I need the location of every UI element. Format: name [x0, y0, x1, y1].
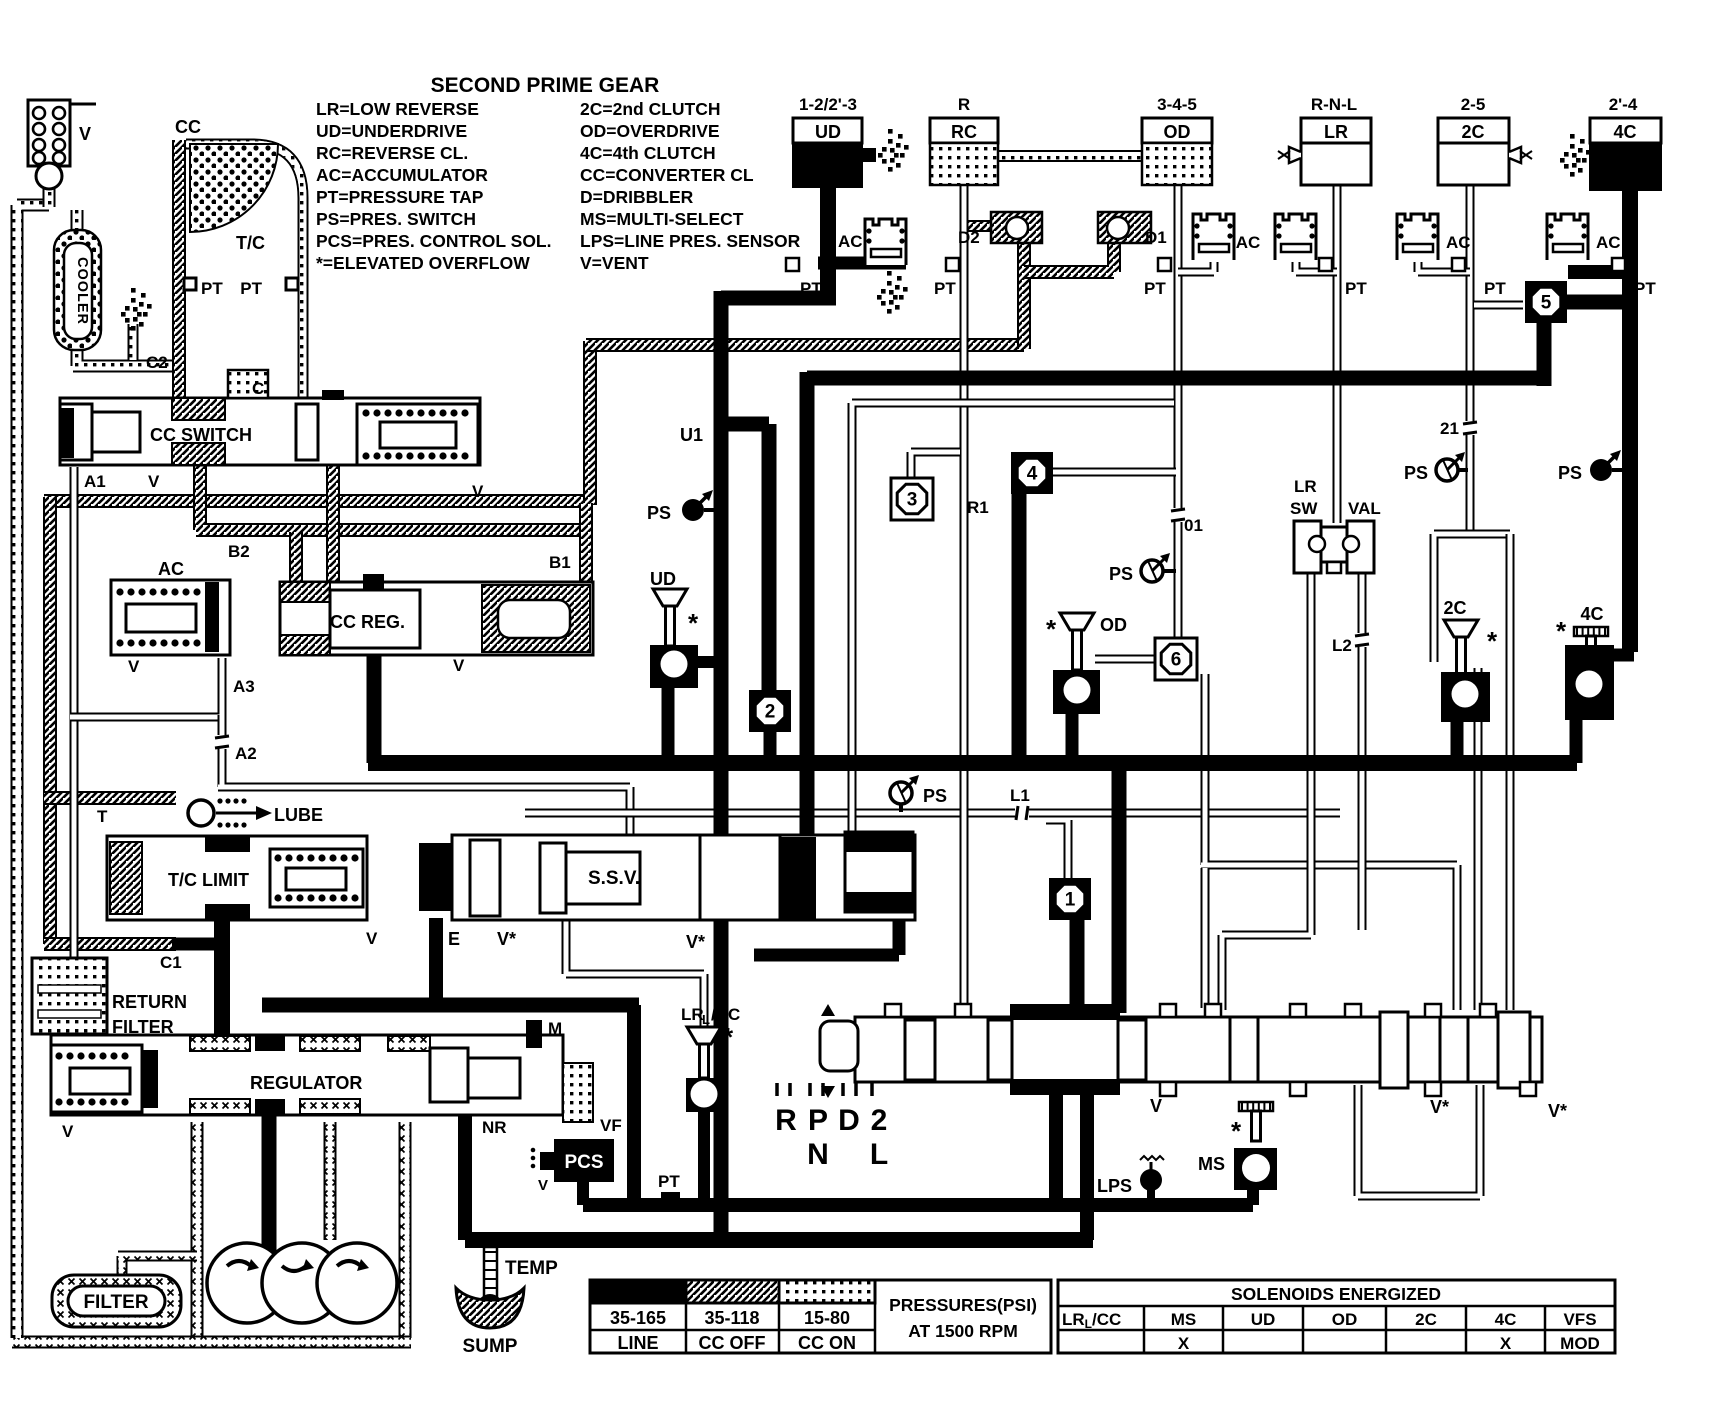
wire: L2 line	[1358, 571, 1367, 930]
svg-text:SW: SW	[1290, 499, 1318, 518]
svg-text:MS: MS	[1198, 1154, 1225, 1174]
svg-text:OD: OD	[1164, 122, 1191, 142]
svg-text:REGULATOR: REGULATOR	[250, 1073, 362, 1093]
svg-text:2C: 2C	[1461, 122, 1484, 142]
wire: LPS stem	[1147, 1190, 1155, 1205]
wire: LRL/CC leg	[698, 1106, 710, 1205]
svg-text:R: R	[775, 1104, 797, 1137]
wire: S.S.V. bottom U	[754, 908, 899, 955]
wire: from circle 6 down and right to manual valve	[1201, 674, 1457, 1010]
wire: circle2 drop	[764, 729, 777, 763]
wire: E drop from S.S.V.	[429, 918, 443, 1005]
svg-text:PT: PT	[1144, 279, 1166, 298]
svg-text:PS: PS	[1404, 463, 1428, 483]
svg-text:*=ELEVATED OVERFLOW: *=ELEVATED OVERFLOW	[316, 253, 530, 273]
svg-text:CC: CC	[175, 117, 201, 137]
svg-text:3: 3	[907, 490, 918, 511]
node 5	[1525, 281, 1567, 323]
lube orifice	[188, 800, 214, 826]
svg-text:LRL/CC: LRL/CC	[1062, 1310, 1121, 1331]
svg-text:T/C LIMIT: T/C LIMIT	[168, 870, 249, 890]
pressures legend table	[590, 1280, 1051, 1353]
wire: LR SW VAL left outlet	[1222, 571, 1311, 1010]
svg-text:S.S.V.: S.S.V.	[588, 868, 640, 889]
svg-text:2C=2nd CLUTCH: 2C=2nd CLUTCH	[580, 99, 721, 119]
wire: 2C overflow drop	[1451, 722, 1464, 763]
wire: AC4 connector	[1418, 262, 1470, 272]
valve manual (R P D 2 N L)	[855, 1017, 1542, 1082]
svg-text:PT: PT	[240, 279, 262, 298]
svg-text:D2: D2	[958, 228, 980, 247]
svg-text:2C: 2C	[1443, 598, 1466, 618]
wire: pump feed	[262, 1112, 277, 1252]
wire: 4C main drop	[1622, 186, 1638, 652]
svg-text:X: X	[1500, 1334, 1512, 1353]
wire: hatched riser up to D1/D2 row	[583, 341, 597, 505]
filter	[52, 1275, 181, 1327]
svg-text:PS: PS	[1109, 564, 1133, 584]
svg-text:35-118: 35-118	[704, 1308, 759, 1328]
svg-text:MS: MS	[1171, 1310, 1197, 1329]
wire: sump bottom line	[12, 1336, 411, 1349]
svg-text:L1: L1	[1010, 786, 1030, 805]
svg-text:T/C: T/C	[236, 233, 265, 253]
svg-text:35-165: 35-165	[610, 1308, 666, 1328]
wire: PCS leg	[577, 1178, 589, 1205]
wire: pipe under hatch row	[852, 403, 1174, 838]
break 01	[1172, 508, 1184, 522]
wire: 4C overflow link	[1605, 649, 1634, 662]
break A2	[216, 735, 228, 749]
svg-text:UD=UNDERDRIVE: UD=UNDERDRIVE	[316, 121, 467, 141]
svg-text:LPS: LPS	[1097, 1176, 1132, 1196]
svg-text:2: 2	[871, 1104, 888, 1137]
wire: circle 5 to 4C line	[1560, 295, 1636, 310]
wire: hatched leg D2 down	[1017, 243, 1031, 349]
valve S.S.V.	[452, 835, 915, 920]
svg-text:PS=PRES. SWITCH: PS=PRES. SWITCH	[316, 209, 476, 229]
wire: main UD riser down entire sheet	[714, 291, 729, 1240]
wire: hatched stub RC to D2	[966, 220, 991, 232]
accumulator AC (UD)	[865, 219, 906, 265]
wire: bottom return line	[465, 1232, 1093, 1248]
wire: cooler outlet / C2 dotted line	[73, 348, 178, 366]
svg-text:01: 01	[1184, 516, 1203, 535]
svg-text:PT: PT	[658, 1172, 680, 1191]
svg-text:U1: U1	[680, 425, 703, 445]
svg-text:V*: V*	[1548, 1101, 1567, 1121]
svg-text:AC=ACCUMULATOR: AC=ACCUMULATOR	[316, 165, 488, 185]
sump cup	[456, 1288, 524, 1328]
wire: LPS/MS bus	[583, 1198, 1253, 1212]
return filter	[32, 958, 107, 1034]
svg-text:PT: PT	[934, 279, 956, 298]
wire: suction left	[191, 1122, 204, 1338]
wire: U1 stub and branch to circle 2	[714, 424, 769, 695]
wire: 2C line to circle 5	[1474, 301, 1523, 310]
svg-text:2'-4: 2'-4	[1609, 95, 1638, 114]
vent symbol V top-left	[28, 100, 70, 166]
svg-text:D: D	[838, 1104, 860, 1137]
wire: riser from S.S.V. to top bus	[800, 372, 815, 840]
wire: MS leg	[1247, 1183, 1259, 1205]
svg-text:N: N	[807, 1138, 829, 1171]
wire: AC1 thick bar	[818, 257, 906, 270]
svg-text:RETURN: RETURN	[112, 992, 187, 1012]
svg-text:3-4-5: 3-4-5	[1157, 95, 1197, 114]
wire: middle main bus y763	[368, 755, 1577, 771]
PT taps on T/C	[184, 278, 196, 290]
wire: OD overflow drop	[1066, 712, 1079, 763]
svg-text:2C: 2C	[1415, 1310, 1437, 1329]
break 21	[1464, 421, 1476, 435]
svg-text:UD: UD	[650, 569, 676, 589]
svg-text:CC=CONVERTER CL: CC=CONVERTER CL	[580, 165, 754, 185]
wire: AC3 connector	[1296, 262, 1337, 272]
svg-text:FILTER: FILTER	[83, 1292, 148, 1313]
node 3	[891, 478, 933, 520]
svg-text:C2: C2	[146, 353, 168, 372]
svg-text:RC=REVERSE CL.: RC=REVERSE CL.	[316, 143, 468, 163]
svg-text:LR: LR	[1324, 122, 1348, 142]
svg-text:L: L	[702, 1012, 710, 1027]
wire: C1 drop from T/C LIMIT	[214, 918, 230, 1040]
svg-text:R-N-L: R-N-L	[1311, 95, 1357, 114]
wire: filter link	[118, 1256, 197, 1274]
wire: suction mid	[324, 1122, 337, 1240]
svg-text:X: X	[1178, 1334, 1190, 1353]
break L2	[1356, 633, 1368, 647]
svg-text:AC: AC	[1596, 233, 1621, 252]
svg-text:OD: OD	[1100, 615, 1127, 635]
svg-text:V: V	[453, 656, 465, 675]
svg-text:LPS=LINE PRES. SENSOR: LPS=LINE PRES. SENSOR	[580, 231, 801, 251]
PT tap	[1612, 258, 1625, 271]
svg-text:PCS=PRES. CONTROL SOL.: PCS=PRES. CONTROL SOL.	[316, 231, 551, 251]
wire: 2C loop	[1434, 534, 1510, 662]
wire: riser top bus to circle 5	[1537, 316, 1552, 386]
node 2	[749, 690, 791, 732]
svg-text:OD=OVERDRIVE: OD=OVERDRIVE	[580, 121, 720, 141]
wire: NR drop	[458, 1112, 472, 1240]
svg-text:*: *	[1487, 626, 1498, 656]
svg-text:5: 5	[1541, 293, 1552, 314]
T/C dome (converter clutch area)	[190, 144, 278, 232]
wire: top bus y378	[807, 371, 1548, 386]
wire: hatched T frame top	[44, 791, 176, 805]
svg-text:PT: PT	[1484, 279, 1506, 298]
svg-text:LR: LR	[1294, 477, 1317, 496]
node 6	[1155, 638, 1197, 680]
wire: hatched line CC SWITCH row to right riser	[44, 494, 590, 508]
PT tap	[1319, 258, 1332, 271]
svg-text:B1: B1	[549, 553, 571, 572]
svg-text:R: R	[958, 95, 970, 114]
svg-text:SUMP: SUMP	[463, 1336, 518, 1357]
wire: manual valve drop right	[1080, 1085, 1094, 1240]
svg-text:LUBE: LUBE	[274, 805, 323, 825]
accumulator AC left	[111, 580, 230, 655]
svg-text:P: P	[808, 1104, 828, 1137]
svg-text:2-5: 2-5	[1461, 95, 1486, 114]
svg-text:PT: PT	[800, 279, 822, 298]
svg-text:4C: 4C	[1580, 604, 1603, 624]
svg-text:R1: R1	[967, 498, 989, 517]
wire: hatched line to dribblers D2/D1	[586, 338, 1024, 352]
svg-text:*: *	[1556, 616, 1567, 646]
svg-text:CC SWITCH: CC SWITCH	[150, 425, 252, 445]
svg-text:PRESSURES(PSI): PRESSURES(PSI)	[889, 1295, 1037, 1315]
wire: RC line down	[960, 183, 969, 1010]
svg-text:SECOND PRIME GEAR: SECOND PRIME GEAR	[431, 74, 660, 97]
wire: circle4 drop	[1012, 491, 1027, 763]
accumulator AC (4C)	[1547, 214, 1588, 260]
svg-text:LR=LOW REVERSE: LR=LOW REVERSE	[316, 99, 479, 119]
svg-text:B2: B2	[228, 542, 250, 561]
wire: left border dotted return line	[17, 205, 49, 1310]
wire: A2 pipe to S.S.V.	[218, 715, 630, 838]
svg-text:V: V	[148, 472, 160, 491]
gear ticks	[775, 1083, 779, 1096]
wire: OD line down	[1174, 183, 1183, 647]
valve T/C LIMIT	[107, 836, 367, 920]
svg-text:C1: C1	[160, 953, 182, 972]
wire: hatched left vertical (T frame)	[43, 497, 57, 944]
wire: UD overflow link	[695, 656, 723, 668]
break L1	[1015, 807, 1029, 819]
svg-text:*: *	[688, 608, 699, 638]
svg-text:VAL: VAL	[1348, 499, 1381, 518]
svg-text:V*: V*	[1430, 1097, 1449, 1117]
VF dotted block	[563, 1063, 593, 1122]
svg-text:D=DRIBBLER: D=DRIBBLER	[580, 187, 694, 207]
PT tap	[1158, 258, 1171, 271]
svg-text:15-80: 15-80	[804, 1308, 850, 1328]
M tab	[526, 1020, 542, 1048]
svg-text:LR: LR	[681, 1005, 704, 1024]
svg-text:UD: UD	[1251, 1310, 1276, 1329]
svg-text:4C: 4C	[1495, 1310, 1517, 1329]
svg-text:V*: V*	[497, 929, 516, 949]
wire: riser regulator to LPS bus	[627, 1005, 641, 1205]
wire: 2C loop right long drop	[1506, 534, 1515, 1010]
wire: hatched U between D2 and D1	[1024, 243, 1114, 272]
svg-text:A1: A1	[84, 472, 106, 491]
PT tap	[946, 258, 959, 271]
wire: 2C line down	[1466, 183, 1475, 534]
svg-text:LINE: LINE	[617, 1333, 658, 1353]
svg-text:6: 6	[1171, 650, 1182, 671]
wire: LR line down	[1333, 183, 1342, 523]
svg-text:4C=4th CLUTCH: 4C=4th CLUTCH	[580, 143, 716, 163]
cooler	[54, 230, 101, 350]
svg-text:NR: NR	[482, 1118, 507, 1137]
wire: UD overflow drop	[662, 684, 675, 763]
svg-text:T: T	[97, 807, 108, 826]
svg-text:PS: PS	[1558, 463, 1582, 483]
svg-text:C: C	[252, 379, 264, 398]
PCS solenoid	[554, 1139, 614, 1182]
svg-text:V: V	[79, 124, 91, 144]
pressure switch PS (2C)	[1436, 459, 1458, 481]
svg-text:1-2/2'-3: 1-2/2'-3	[799, 95, 857, 114]
svg-text:A3: A3	[233, 677, 255, 696]
CC SWITCH spring chamber	[357, 404, 478, 465]
svg-text:TEMP: TEMP	[505, 1258, 558, 1279]
pressure switch PS (4C)	[1590, 459, 1612, 481]
svg-text:V: V	[1150, 1096, 1162, 1116]
valve LR SW VAL	[1294, 521, 1321, 573]
svg-text:PT: PT	[1345, 279, 1367, 298]
wire: manual valve drop left	[1049, 1085, 1063, 1205]
wire: hatched T frame bottom	[44, 937, 176, 951]
svg-text:V: V	[366, 929, 378, 948]
wire: circle 3 link	[911, 452, 960, 480]
pressure switch PS (L1)	[890, 782, 912, 804]
svg-text:*: *	[1231, 1116, 1242, 1146]
svg-text:V: V	[62, 1122, 74, 1141]
svg-text:AT 1500 RPM: AT 1500 RPM	[908, 1321, 1018, 1341]
valve CC SWITCH	[60, 398, 480, 465]
svg-text:CC ON: CC ON	[798, 1333, 856, 1353]
wire: CC REG drop to bus	[367, 652, 382, 763]
svg-text:M: M	[548, 1019, 562, 1038]
wire: dotted left joins bottom	[11, 1305, 24, 1338]
node 1	[1049, 878, 1091, 920]
wire: S.S.V. port to LRL/CC	[566, 918, 704, 1032]
svg-text:PS: PS	[923, 786, 947, 806]
pump rotors	[207, 1243, 287, 1323]
svg-text:V=VENT: V=VENT	[580, 253, 649, 273]
svg-text:V*: V*	[686, 932, 705, 952]
svg-text:E: E	[448, 929, 460, 949]
wire: L1 long pipe	[525, 809, 1340, 818]
svg-text:MS=MULTI-SELECT: MS=MULTI-SELECT	[580, 209, 744, 229]
wire: hatched B2 path	[196, 463, 588, 530]
svg-text:L2: L2	[1332, 636, 1352, 655]
wire: A3 pipe	[70, 658, 222, 719]
pressure switch PS (U1)	[682, 499, 704, 521]
wire: circle 4 link to OD line	[1052, 468, 1176, 477]
svg-text:COOLER: COOLER	[74, 257, 90, 325]
svg-text:4C: 4C	[1613, 122, 1636, 142]
svg-text:4: 4	[1027, 464, 1038, 485]
accumulator AC (LR)	[1275, 214, 1316, 260]
wire: bus drop to manual valve	[1112, 763, 1127, 1013]
svg-text:V: V	[538, 1177, 548, 1194]
svg-text:VF: VF	[600, 1116, 622, 1135]
wire: A1 pipe down left side	[70, 467, 79, 960]
svg-text:AC: AC	[1446, 233, 1471, 252]
PT tap	[1452, 258, 1465, 271]
svg-text:AC: AC	[1236, 233, 1261, 252]
node 4	[1011, 452, 1053, 494]
wire: regulator top bus	[262, 998, 639, 1013]
svg-text:AC: AC	[838, 232, 863, 251]
wire: hatched drop to CC REG	[326, 463, 340, 584]
temp thermometer	[484, 1247, 497, 1299]
svg-text:*: *	[723, 1022, 734, 1052]
torque converter T/C dotted outline	[186, 144, 303, 404]
valve CC REG	[280, 582, 593, 655]
svg-text:MOD: MOD	[1560, 1334, 1600, 1353]
wire: loop below manual valve	[1358, 1085, 1480, 1196]
svg-text:*: *	[1046, 614, 1057, 644]
svg-text:SOLENOIDS ENERGIZED: SOLENOIDS ENERGIZED	[1231, 1284, 1441, 1304]
C1 stub	[172, 938, 218, 951]
accumulator AC (D1)	[1193, 214, 1234, 260]
svg-text:2: 2	[765, 702, 776, 723]
wire: UD solenoid feed thick	[820, 185, 836, 296]
svg-text:PT=PRESSURE TAP: PT=PRESSURE TAP	[316, 187, 484, 207]
svg-text:1: 1	[1065, 890, 1076, 911]
wire: cooler feed dotted	[43, 186, 56, 207]
svg-text:AC: AC	[158, 559, 184, 579]
pressure switch PS (OD)	[1141, 560, 1163, 582]
accumulator AC (2C)	[1397, 214, 1438, 260]
dribbler D1	[1098, 212, 1151, 243]
wire: AC2 connector	[1178, 262, 1214, 272]
svg-text:PT: PT	[1634, 279, 1656, 298]
svg-text:RC: RC	[951, 122, 977, 142]
svg-text:V: V	[472, 482, 484, 501]
wire: AC5 thick bar	[1568, 265, 1630, 279]
S.S.V. right end block	[845, 832, 913, 912]
svg-text:CC OFF: CC OFF	[699, 1333, 766, 1353]
svg-text:D1: D1	[1145, 228, 1167, 247]
solenoids energized table	[1058, 1280, 1615, 1353]
dribbler D2	[991, 212, 1042, 243]
svg-text:V: V	[128, 657, 140, 676]
wire: 4C overflow drop	[1570, 716, 1583, 763]
wire: hatched B1 drop	[579, 503, 593, 585]
wire: OD overflow to circle 6	[1095, 655, 1160, 664]
PT tap bottom	[661, 1192, 680, 1200]
wire: branch to circle 1	[1046, 820, 1068, 878]
svg-text:PCS: PCS	[564, 1152, 603, 1173]
svg-text:CC REG.: CC REG.	[330, 612, 405, 632]
svg-text:PT: PT	[201, 279, 223, 298]
svg-text:OD: OD	[1332, 1310, 1358, 1329]
wire: 2C inner drop	[1474, 668, 1483, 1010]
svg-text:UD: UD	[815, 122, 841, 142]
C port dotted box	[228, 370, 268, 398]
wire: suction right	[399, 1122, 412, 1338]
svg-text:VFS: VFS	[1563, 1310, 1596, 1329]
svg-text:PS: PS	[647, 503, 671, 523]
svg-text:A2: A2	[235, 744, 257, 763]
svg-text:21: 21	[1440, 419, 1459, 438]
valve REGULATOR	[51, 1035, 563, 1115]
svg-text:L: L	[870, 1138, 888, 1171]
wire: RC-OD dotted connector	[998, 150, 1142, 162]
PT tap	[786, 258, 799, 271]
wire: circle1 drop to manual valve	[1070, 920, 1085, 1013]
wire: CC hatched line down T/C left side	[172, 140, 186, 410]
wire: hatched drop B2 to CC REG	[289, 532, 303, 584]
vent tap C2 dotted	[128, 324, 139, 360]
